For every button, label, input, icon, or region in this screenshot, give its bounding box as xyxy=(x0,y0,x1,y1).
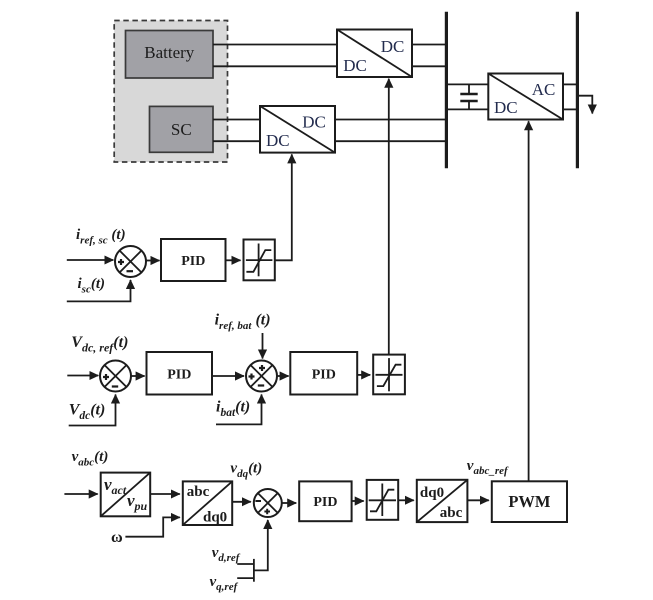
svg-text:vd,ref: vd,ref xyxy=(212,545,241,564)
wire SC plus xyxy=(213,119,260,121)
feedback wire i_sc xyxy=(67,280,131,301)
wire S4 to PID3 xyxy=(282,502,296,504)
wire S2 to PID2 xyxy=(131,375,145,377)
saturation limiter (SC loop) xyxy=(244,240,275,281)
wire inverter to AC bus minus xyxy=(563,108,576,110)
svg-text:PID: PID xyxy=(181,254,205,269)
PID controller (battery current loop) xyxy=(290,352,357,395)
input wire i_ref,sc xyxy=(67,259,114,261)
DC/DC converter (battery) xyxy=(337,30,412,78)
summing junction S4 xyxy=(254,489,282,517)
wire PID2 to S3 xyxy=(212,375,244,377)
wire battery minus xyxy=(213,65,337,67)
wire PID to saturation xyxy=(226,259,241,261)
wire dq0/abc to PWM xyxy=(467,499,488,501)
ref join wires into S4 xyxy=(237,520,268,582)
svg-text:dq0: dq0 xyxy=(420,485,444,501)
input wire v_abc xyxy=(64,493,97,495)
svg-text:abc: abc xyxy=(187,484,210,500)
saturation limiter (battery loop) xyxy=(373,355,405,395)
svg-text:dq0: dq0 xyxy=(203,510,227,526)
control arrow into inverter (from PWM) xyxy=(528,121,530,481)
wire PID2b to saturation2 xyxy=(357,374,370,376)
wire DC bus to inverter plus xyxy=(447,83,488,85)
input wire V_dc,ref xyxy=(67,375,98,377)
load arrow xyxy=(579,96,593,114)
svg-text:isc(t): isc(t) xyxy=(78,276,106,296)
scaling block v_act/v_pu xyxy=(101,473,151,517)
transform block dq0/abc xyxy=(417,480,468,522)
summing junction S2 xyxy=(100,361,131,392)
PID controller (SC loop) xyxy=(161,239,226,281)
svg-text:DC: DC xyxy=(302,113,326,132)
PID controller (inverter loop) xyxy=(299,481,351,521)
svg-text:SC: SC xyxy=(171,120,192,139)
DC bus xyxy=(445,12,448,169)
DC-link capacitor xyxy=(460,84,477,109)
summing junction S3 xyxy=(246,361,277,392)
svg-text:PID: PID xyxy=(167,368,191,383)
control arrow into SC converter xyxy=(275,154,292,260)
wire battery converter to DC bus plus xyxy=(412,44,445,46)
svg-text:vabc_ref: vabc_ref xyxy=(467,458,509,477)
svg-text:PID: PID xyxy=(312,368,336,383)
PWM block xyxy=(492,481,567,522)
wire battery plus xyxy=(213,44,337,46)
ESS dashed enclosure xyxy=(114,21,227,163)
wire omega into abc/dq0 xyxy=(125,517,179,536)
svg-text:DC: DC xyxy=(381,37,405,56)
wire SC converter to DC bus minus xyxy=(335,140,445,142)
wire abc/dq0 to S4 xyxy=(232,501,251,503)
svg-text:vdq(t): vdq(t) xyxy=(230,461,262,481)
wire SC converter to DC bus plus xyxy=(335,119,445,121)
svg-text:vabc(t): vabc(t) xyxy=(72,449,109,469)
svg-text:DC: DC xyxy=(343,56,367,75)
svg-text:PID: PID xyxy=(313,495,337,510)
saturation limiter (inverter loop) xyxy=(367,480,399,520)
feedback wire V_dc xyxy=(69,395,116,426)
svg-text:vq,ref: vq,ref xyxy=(210,574,239,593)
svg-text:iref, sc (t): iref, sc (t) xyxy=(76,227,126,247)
svg-text:iref, bat (t): iref, bat (t) xyxy=(215,312,271,333)
wire battery converter to DC bus minus xyxy=(412,65,445,67)
AC bus xyxy=(576,12,579,169)
svg-text:DC: DC xyxy=(266,131,290,150)
control arrow into battery converter xyxy=(388,79,390,355)
svg-text:ω: ω xyxy=(111,529,123,546)
svg-text:Battery: Battery xyxy=(144,43,195,62)
svg-text:abc: abc xyxy=(440,505,463,521)
transform block abc/dq0 xyxy=(183,481,232,525)
wire S1 to PID xyxy=(146,260,160,262)
svg-text:DC: DC xyxy=(494,98,518,117)
wire DC bus to inverter minus xyxy=(447,108,488,110)
wire PID3 to saturation3 xyxy=(352,500,364,502)
wire saturation3 to dq0/abc xyxy=(398,499,414,501)
wire SC minus xyxy=(213,140,260,142)
summing junction S1 xyxy=(115,246,146,277)
wire v_pu to abc/dq0 xyxy=(150,493,180,495)
Battery block xyxy=(126,31,214,79)
svg-text:ibat(t): ibat(t) xyxy=(216,399,250,420)
wire i_ref,bat into S3 xyxy=(262,333,264,359)
SC block xyxy=(150,106,214,152)
wire S3 to PID2b xyxy=(277,375,289,377)
svg-text:Vdc, ref(t): Vdc, ref(t) xyxy=(71,334,128,355)
DC/AC inverter xyxy=(488,74,563,120)
svg-text:AC: AC xyxy=(532,80,556,99)
DC/DC converter (SC) xyxy=(260,106,335,153)
svg-text:PWM: PWM xyxy=(508,492,551,511)
PID controller (DC voltage loop) xyxy=(147,352,213,395)
wire inverter to AC bus plus xyxy=(563,83,576,85)
feedback wire i_bat xyxy=(216,395,262,425)
svg-text:Vdc(t): Vdc(t) xyxy=(69,402,106,423)
